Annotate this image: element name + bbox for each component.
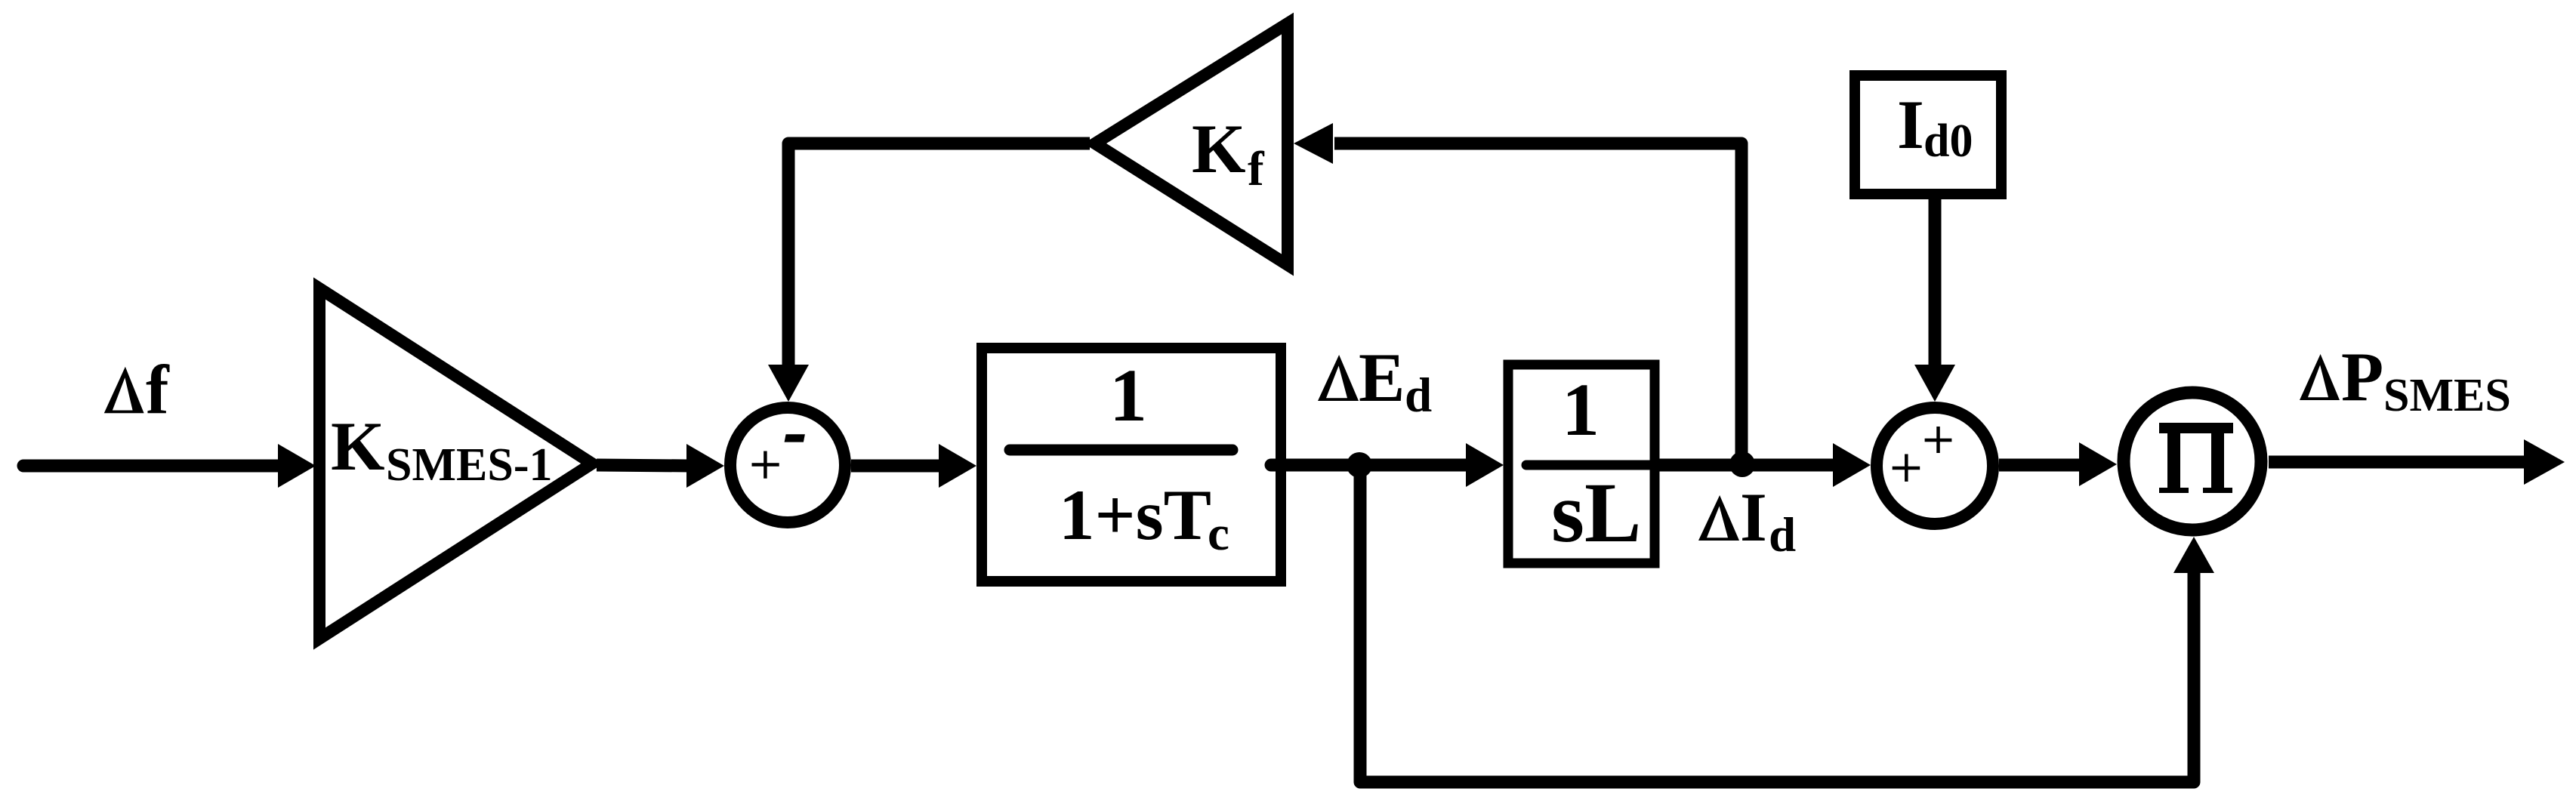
svg-text:d: d — [1769, 508, 1796, 562]
product symbol Π — [2159, 423, 2233, 493]
plus sign of summer 1 — [752, 451, 779, 479]
svg-text:d0: d0 — [1924, 116, 1973, 167]
gain block K_SMES-1 triangle — [319, 288, 592, 639]
svg-text:1: 1 — [1109, 353, 1147, 437]
node B dot (ΔId takeoff) — [1729, 451, 1755, 477]
feedback gain Kf triangle — [1095, 23, 1288, 265]
label ΔE delta outline — [1318, 355, 1359, 401]
svg-text:d: d — [1405, 368, 1432, 423]
arrowhead into block 1 — [939, 444, 976, 488]
svg-text:SMES: SMES — [2383, 370, 2511, 421]
label Δf delta outline — [104, 367, 144, 414]
arrowhead down into summer 2 top — [1914, 365, 1955, 402]
arrowhead down into summer 1 top — [768, 365, 809, 402]
minus sign of summer 1 — [785, 434, 805, 442]
svg-text:I: I — [1740, 479, 1767, 556]
summing junction 2 — [1877, 408, 1993, 524]
svg-text:K: K — [331, 408, 385, 485]
label ΔI delta outline — [1698, 495, 1739, 541]
svg-text:c: c — [1208, 507, 1229, 561]
svg-text:I: I — [1897, 86, 1924, 163]
constant block Id0 — [1855, 75, 2001, 194]
svg-text:SMES-1: SMES-1 — [386, 439, 552, 491]
wire Id0 down to summer 2 — [1929, 195, 1942, 369]
svg-text:E: E — [1359, 339, 1405, 416]
svg-text:K: K — [1192, 110, 1246, 187]
output wire ΔP_SMES — [2269, 456, 2527, 469]
lower plus sign of summer 2 — [1893, 454, 1920, 482]
input wire Δf — [23, 460, 283, 473]
summing junction 1 — [730, 408, 845, 522]
arrowhead left into Kf — [1294, 123, 1333, 164]
svg-text:1+sT: 1+sT — [1059, 475, 1211, 555]
arrowhead into summer 2 — [1833, 443, 1871, 487]
svg-text:P: P — [2341, 338, 2383, 415]
wire Kf output to summer 1 (corner) — [788, 143, 1090, 369]
svg-text:f: f — [1248, 142, 1265, 196]
node A dot (ΔEd takeoff) — [1347, 452, 1372, 478]
wire block 2 to summer 2 — [1659, 459, 1838, 472]
wire K_SMES-1 apex to summer 1 — [597, 465, 690, 466]
arrowhead into summer 1 — [686, 444, 724, 488]
output arrowhead — [2524, 439, 2565, 485]
wire block 1 to block 2 — [1271, 459, 1470, 472]
svg-text:sL: sL — [1551, 466, 1641, 560]
svg-text:1: 1 — [1562, 368, 1600, 451]
upper plus sign of summer 2 — [1925, 427, 1952, 453]
arrowhead into K_SMES-1 — [278, 444, 316, 488]
wire summer 2 to product — [1999, 459, 2084, 472]
feedback wire from node B up to Kf input — [1334, 143, 1741, 464]
product junction Π circle — [2124, 393, 2261, 530]
fraction bar of block 2 — [1526, 461, 1659, 470]
bottom feedback wire node A to product — [1360, 465, 2194, 782]
arrowhead into product — [2079, 442, 2117, 486]
fraction bar of block 1 — [1010, 445, 1232, 456]
wire summer 1 to block 1 — [851, 460, 943, 473]
label ΔP delta outline — [2300, 354, 2340, 400]
svg-text:f: f — [146, 351, 170, 428]
arrowhead up into product bottom — [2173, 537, 2214, 573]
arrowhead into block 2 — [1466, 443, 1504, 487]
block 2 transfer function 1/sL — [1508, 365, 1655, 563]
block 1 transfer function 1/(1+sTc) — [982, 348, 1281, 581]
